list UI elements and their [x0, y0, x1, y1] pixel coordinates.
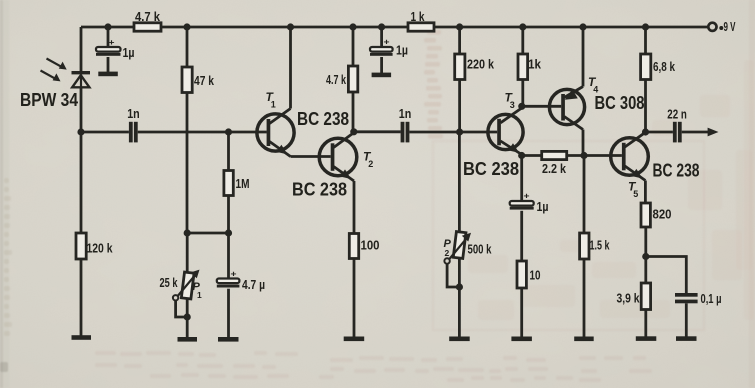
- ground under 0.1u: [676, 336, 697, 341]
- wire cap to local ground: [107, 57, 110, 72]
- svg-text:BC 238: BC 238: [463, 159, 519, 179]
- wire top rail segment left: [81, 26, 134, 29]
- wire P2 body to ground: [458, 258, 461, 337]
- svg-text:4.7 µ: 4.7 µ: [242, 277, 265, 292]
- wire junction to 3.9k: [644, 257, 647, 284]
- bottom left corner mark: [0, 362, 8, 372]
- red ghost band upper middle: [427, 30, 441, 35]
- wire bias node down to 4.7u: [227, 233, 230, 279]
- ghost pcb blobs right half: [468, 255, 508, 273]
- left margin ghost text column: [4, 178, 9, 183]
- node P1 wiper/body junction: [184, 313, 191, 320]
- capacitor 1u electrolytic #3: [510, 201, 534, 210]
- svg-text:+: +: [524, 192, 530, 201]
- wire 1n #2 to T3 base: [409, 131, 497, 134]
- svg-text:120 k: 120 k: [87, 241, 114, 256]
- wire rail to cap 1u #2: [380, 27, 383, 47]
- wire T3 emitter branch down: [520, 156, 523, 202]
- output arrowhead: [708, 128, 719, 137]
- svg-text:820: 820: [653, 207, 672, 222]
- wire 2.2k to T4 collector node and T5 base: [567, 154, 622, 157]
- wire down to 120k: [80, 132, 83, 233]
- left edge shadow: [0, 0, 3, 388]
- wire bias node down to P1: [186, 233, 189, 272]
- wire 120k to ground: [80, 259, 83, 337]
- svg-text:3: 3: [510, 100, 515, 110]
- wire bias node horizontal: [187, 232, 228, 235]
- potentiometer P1 wiper arrow: [177, 274, 195, 296]
- transistor T1 BC238: [257, 109, 294, 157]
- ground under 1u #1: [98, 72, 118, 77]
- node P2 wiper/body junction: [456, 283, 463, 290]
- svg-text:BC 238: BC 238: [653, 161, 700, 181]
- wire top rail segment right: [434, 26, 708, 29]
- svg-text:10: 10: [530, 268, 541, 283]
- svg-text:5: 5: [633, 189, 638, 199]
- resistor 6.8k: [641, 54, 651, 80]
- svg-text:500 k: 500 k: [468, 242, 493, 257]
- wire 22n to output arrow: [682, 131, 710, 134]
- node rail/4.7k2 junction: [349, 23, 356, 30]
- wire rail to 4.7k #2: [352, 27, 355, 66]
- wire T3 collector up: [520, 106, 523, 108]
- resistor 47k: [182, 67, 192, 93]
- node T4 collector/2.2k junction: [580, 152, 587, 159]
- node T2 collector junction: [350, 128, 357, 135]
- svg-text:22 n: 22 n: [667, 107, 687, 122]
- capacitor 0.1u: [675, 293, 698, 303]
- resistor 1k bias: [518, 54, 528, 80]
- svg-text:3,9 k: 3,9 k: [617, 291, 641, 306]
- capacitor 4.7u electrolytic: [217, 279, 240, 288]
- ground under 120k: [72, 335, 92, 340]
- wire T1 emitter to T2 base: [291, 155, 331, 158]
- wire 10 to ground: [520, 288, 523, 337]
- wire signal node down to P2: [458, 132, 461, 231]
- resistor 2.2k: [542, 151, 567, 159]
- svg-text:220 k: 220 k: [467, 57, 495, 72]
- svg-text:1k: 1k: [528, 57, 542, 72]
- resistor 4.7k top-left (in rail): [134, 23, 161, 31]
- bottom ghost text lines: [95, 351, 116, 355]
- wire 4.7k #2 to collector node: [353, 92, 354, 133]
- node T3 emitter/2.2k junction: [518, 152, 525, 159]
- node rail/1u junction: [104, 23, 111, 30]
- capacitor 1n interstage: [401, 122, 410, 143]
- light arrow 1: [47, 59, 62, 67]
- svg-text:1.5 k: 1.5 k: [590, 238, 611, 253]
- ghost figure box outline: [433, 141, 704, 330]
- wire T5 emitter down: [644, 181, 647, 204]
- wire photodiode branch upper: [80, 27, 83, 71]
- light arrow 2: [41, 71, 56, 79]
- wire 47k down across signal to bias node: [186, 93, 189, 234]
- svg-text:2: 2: [445, 248, 450, 258]
- ground under P1: [178, 337, 198, 342]
- wire 3.9k to ground: [644, 310, 647, 337]
- transistor T3 BC238: [488, 109, 523, 155]
- node 220k/T3 base junction: [456, 128, 463, 135]
- wire junction to 0.1u: [646, 257, 687, 294]
- resistor 10: [517, 261, 526, 288]
- svg-text:2: 2: [368, 159, 373, 169]
- svg-text:+: +: [384, 38, 390, 47]
- right edge strip: [749, 0, 755, 388]
- node rail/220k junction: [456, 23, 463, 30]
- svg-text:1M: 1M: [236, 176, 250, 191]
- potentiometer P2 wiper arrow: [449, 238, 467, 260]
- svg-text:2.2 k: 2.2 k: [542, 161, 567, 176]
- wire 1k to T3 collector node: [521, 80, 524, 107]
- node rail/47k junction: [183, 23, 190, 30]
- svg-text:100: 100: [361, 238, 380, 253]
- node rail/T4 emitter: [579, 23, 586, 30]
- wire 1.5k branch: [583, 156, 586, 234]
- potentiometer P1 25k body: [181, 272, 194, 299]
- ground under 1u #2: [372, 73, 392, 78]
- node diode/signal junction: [77, 128, 84, 135]
- svg-text:0,1 µ: 0,1 µ: [701, 291, 722, 306]
- P2 wiper terminal circle: [444, 258, 449, 263]
- svg-text:1µ: 1µ: [537, 199, 549, 214]
- svg-text:BC 238: BC 238: [297, 109, 349, 129]
- wire photodiode to signal node: [80, 87, 83, 132]
- ground under P2: [449, 337, 470, 342]
- resistor 4.7k #2: [348, 66, 357, 92]
- wire output node to 22n: [646, 131, 673, 134]
- node 1M top junction: [225, 128, 232, 135]
- resistor 1.5k: [580, 233, 589, 259]
- wire 1n to T1 base: [138, 131, 267, 134]
- svg-text:1: 1: [271, 100, 276, 110]
- transistor T4 BC308: [549, 87, 584, 130]
- svg-text:1n: 1n: [399, 106, 412, 121]
- svg-text:BC 308: BC 308: [595, 93, 645, 113]
- wire rail to 220k: [458, 27, 461, 54]
- resistor 1k top (in rail): [408, 23, 434, 31]
- ground under 3.9k: [636, 336, 657, 341]
- wire rail to cap 1u #1: [107, 27, 110, 47]
- wire T4 collector down: [582, 130, 585, 156]
- transistor T5 BC238: [611, 132, 649, 180]
- wire rail to 6.8k: [644, 27, 647, 54]
- wire node to 2.2k: [522, 154, 542, 157]
- resistor 220k: [455, 54, 465, 80]
- wire T4 emitter to rail: [582, 27, 585, 87]
- wire 220k to signal node: [458, 80, 461, 133]
- wire 100 to ground: [353, 259, 356, 338]
- photodiode BPW34: [72, 71, 91, 87]
- ground under 10: [511, 337, 532, 342]
- svg-text:4.7 k: 4.7 k: [326, 72, 347, 87]
- svg-text:BPW 34: BPW 34: [20, 90, 78, 110]
- svg-text:+: +: [109, 38, 115, 47]
- resistor 120k: [76, 233, 86, 259]
- node rail/6.8k junction: [642, 23, 649, 30]
- resistor 3.9k: [641, 283, 650, 310]
- svg-text:6,8 k: 6,8 k: [653, 59, 676, 74]
- capacitor 1n input: [129, 122, 138, 143]
- transistor T2 BC238: [319, 133, 357, 182]
- wire top rail segment middle: [161, 26, 408, 29]
- wire 1u #3 to 10: [520, 211, 523, 261]
- node bias right junction: [225, 229, 232, 236]
- capacitor 1u electrolytic #2: [370, 47, 393, 56]
- wire T3 collector node to T4 base: [522, 105, 561, 108]
- ground under 1.5k: [574, 337, 594, 342]
- resistor 820: [641, 203, 650, 227]
- wire rail to 1k #2: [521, 27, 524, 54]
- potentiometer P2 500k body: [453, 232, 466, 259]
- capacitor 22n output: [673, 122, 682, 143]
- wire 0.1u to ground: [685, 303, 688, 337]
- node T3 collector/1k junction: [518, 103, 525, 110]
- wire 1M bottom stub: [227, 196, 230, 234]
- ground under 100: [344, 337, 365, 342]
- label +9V: [719, 26, 723, 30]
- node rail/1u2 junction: [378, 23, 385, 30]
- wire 1M top stub: [227, 132, 230, 171]
- wire P1 body to ground: [186, 299, 189, 338]
- svg-text:4.7 k: 4.7 k: [135, 9, 161, 24]
- resistor 1M: [224, 171, 233, 196]
- node 820/3.9k/0.1u junction: [642, 253, 649, 260]
- svg-text:47 k: 47 k: [194, 73, 215, 88]
- svg-text:25 k: 25 k: [160, 275, 179, 290]
- wire rail to 47k: [186, 27, 189, 67]
- wire 820 to junction: [644, 227, 647, 257]
- wire T2 emitter down: [353, 181, 356, 234]
- wire T2 collector node to 1n #2: [354, 130, 401, 133]
- wire 4.7u to ground: [227, 289, 230, 338]
- wire 1u #2 to local ground: [380, 57, 383, 73]
- svg-text:BC 238: BC 238: [292, 180, 347, 200]
- svg-text:1 k: 1 k: [411, 9, 426, 24]
- wire T3 emitter down to node: [520, 155, 523, 156]
- wire 6.8k to output node: [644, 80, 647, 133]
- wire signal line input: [81, 131, 129, 134]
- wire P1 wiper loop: [176, 301, 188, 318]
- node rail/1k junction: [519, 23, 526, 30]
- node T5 collector/output junction: [642, 128, 649, 135]
- node +9V terminal: [708, 23, 716, 31]
- resistor 100: [349, 234, 358, 259]
- wire T1 collector to rail: [289, 27, 292, 109]
- P1 wiper terminal circle: [173, 295, 178, 300]
- wire 1.5k to ground: [583, 259, 586, 337]
- capacitor 1u electrolytic #1: [96, 47, 121, 56]
- svg-text:1µ: 1µ: [396, 43, 408, 58]
- svg-text:1n: 1n: [127, 106, 140, 121]
- svg-text:1µ: 1µ: [123, 45, 135, 60]
- node bias left junction: [184, 229, 191, 236]
- ground under 4.7u: [218, 337, 239, 342]
- svg-text:+: +: [231, 270, 237, 279]
- node rail/T1 collector: [287, 23, 294, 30]
- svg-text:9 V: 9 V: [724, 19, 736, 34]
- svg-text:1: 1: [197, 290, 202, 300]
- wire P2 wiper loop: [447, 264, 459, 287]
